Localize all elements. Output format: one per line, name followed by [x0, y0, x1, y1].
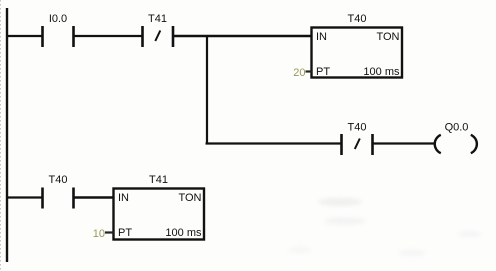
coil Q0.0: [435, 135, 477, 153]
left power rail: [6, 8, 8, 262]
wire branch vertical junction: [206, 35, 208, 144]
svg-text:TON: TON: [376, 31, 399, 43]
value 100 ms (T41): [165, 227, 202, 239]
svg-text:100 ms: 100 ms: [165, 227, 202, 239]
wire rail to contact T40 (row 3): [6, 196, 42, 198]
wire T40 contact to timer box T41: [75, 196, 115, 198]
value 10 preset (T41 PT): [93, 228, 105, 240]
label TON (T40): [376, 31, 399, 43]
label TON (T41): [178, 192, 201, 204]
svg-text:T40: T40: [348, 122, 367, 134]
timer box T41: [114, 189, 205, 240]
svg-text:PT: PT: [118, 227, 132, 239]
label T41: [148, 13, 167, 25]
value 100 ms (T40): [363, 66, 400, 78]
value 20 preset (T40 PT): [293, 67, 305, 79]
wire tick 10 to PT: [105, 231, 114, 233]
wire T40 contact to coil Q0.0: [374, 142, 435, 144]
label T40 (row 2 contact): [348, 122, 367, 134]
timer box T40: [312, 28, 403, 78]
contact I0.0: [43, 26, 74, 47]
label T41 (box title): [149, 174, 168, 186]
label Q0.0: [445, 122, 469, 134]
pin IN (T41): [118, 192, 129, 204]
svg-text:T41: T41: [149, 174, 168, 186]
svg-text:TON: TON: [178, 192, 201, 204]
svg-text:T40: T40: [49, 174, 68, 186]
svg-text:20: 20: [293, 67, 305, 79]
NC contact T41: [143, 26, 174, 47]
svg-text:T41: T41: [148, 13, 167, 25]
pin PT (T41): [118, 227, 132, 239]
pin IN (T40): [316, 31, 327, 43]
wire tick 20 to PT: [306, 70, 313, 72]
contact T40 (row 3): [43, 188, 74, 209]
pin PT (T40): [316, 66, 330, 78]
label T40 (row 3 contact): [49, 174, 68, 186]
svg-text:Q0.0: Q0.0: [445, 122, 469, 134]
svg-text:I0.0: I0.0: [49, 13, 67, 25]
NC contact T40 (row 2): [342, 134, 373, 155]
label T40 (box title): [348, 13, 367, 25]
svg-text:IN: IN: [118, 192, 129, 204]
wire I0.0 to T41 contact: [75, 35, 143, 37]
wire T41 contact to timer box T40: [174, 35, 312, 37]
svg-text:IN: IN: [316, 31, 327, 43]
svg-text:PT: PT: [316, 66, 330, 78]
label I0.0: [49, 13, 67, 25]
svg-text:T40: T40: [348, 13, 367, 25]
wire rail to contact I0.0: [6, 35, 42, 37]
wire branch to T40 contact (row 2): [206, 142, 342, 144]
svg-text:100 ms: 100 ms: [363, 66, 400, 78]
svg-text:10: 10: [93, 228, 105, 240]
